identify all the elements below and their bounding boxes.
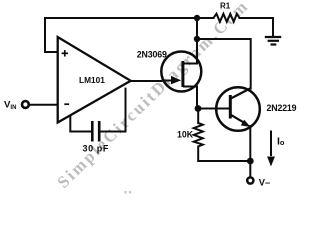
svg-text:10K: 10K — [177, 129, 194, 139]
node A junction dot — [194, 15, 200, 21]
watermark — [53, 0, 252, 192]
arrow Io — [267, 131, 275, 167]
svg-text:V–: V– — [259, 177, 270, 188]
wire Vin to inverting input — [30, 104, 58, 106]
svg-text:2N3069: 2N3069 — [137, 49, 167, 59]
svg-text:Io: Io — [277, 136, 285, 148]
op-amp U1 — [58, 37, 131, 123]
wire node B to collector — [197, 39, 251, 89]
node B junction dot — [194, 36, 200, 42]
transistor Q1 2N3069 — [161, 52, 201, 92]
wire R1 right to ground — [240, 18, 274, 36]
resistor R1 — [213, 14, 239, 22]
svg-text:2N2219: 2N2219 — [267, 103, 297, 113]
wire 10K bottom to node D — [198, 147, 250, 162]
wire feedback left vertical — [44, 18, 46, 52]
resistor R2 10K — [194, 123, 203, 147]
node D junction dot — [247, 158, 254, 165]
svg-text:LM101: LM101 — [79, 75, 105, 85]
op-amp minus — [64, 103, 69, 105]
wire feedback top — [45, 17, 213, 19]
op-amp plus — [62, 50, 68, 56]
terminal V- — [247, 177, 253, 183]
capacitor C1 30pF — [70, 88, 125, 142]
terminal Vin — [22, 101, 29, 108]
ground — [265, 37, 281, 45]
svg-text:30 pF: 30 pF — [83, 144, 110, 154]
transistor Q2 2N2219 — [216, 87, 260, 131]
svg-text:VIN: VIN — [4, 99, 16, 111]
wire op-amp output — [131, 80, 162, 82]
wire noninverting input — [45, 51, 58, 53]
svg-text:R1: R1 — [220, 2, 231, 11]
node C junction dot — [195, 105, 202, 112]
wire emitter down to V- — [249, 126, 251, 177]
wire base — [197, 108, 230, 110]
wire drain vertical — [196, 18, 198, 64]
caption fragment — [124, 191, 131, 194]
wire 10K top — [197, 109, 199, 124]
wire source to node C — [196, 87, 198, 109]
